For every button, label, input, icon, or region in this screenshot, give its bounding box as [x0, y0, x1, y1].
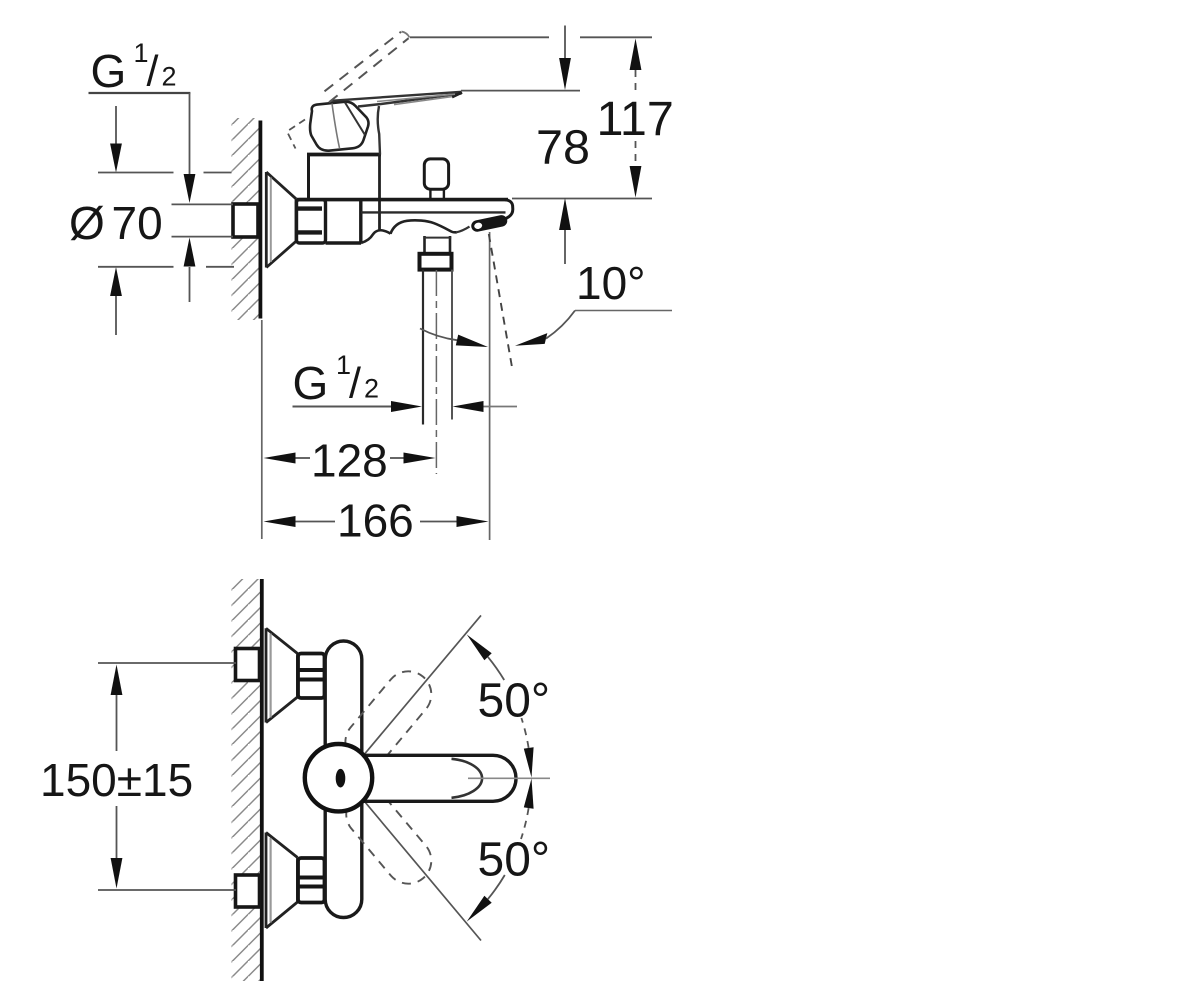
hub center dot	[336, 769, 346, 788]
lever phantom raised position (dashed)	[287, 32, 410, 149]
svg-text:150±15: 150±15	[40, 754, 193, 806]
dimension 150±15	[40, 663, 236, 890]
50 deg ray, lower	[357, 793, 481, 941]
G 1/2 leader underline	[89, 92, 191, 94]
escutcheon cone (side view)	[266, 172, 296, 268]
extension line spout level	[512, 198, 652, 200]
svg-text:10°: 10°	[576, 257, 646, 309]
svg-text:Ø 70: Ø 70	[69, 197, 163, 249]
cartridge housing (side view)	[307, 155, 381, 232]
G 1/2 wall connection square (side view)	[233, 204, 258, 237]
extension lines escutcheon top/bottom (Ø70)	[98, 173, 234, 267]
lever axis extension line	[468, 777, 550, 779]
svg-text:/: /	[147, 48, 159, 96]
spout underside edge	[361, 211, 506, 213]
escutcheon cone, bottom (front view)	[266, 833, 298, 929]
wall connection square, bottom	[236, 875, 260, 907]
svg-text:117: 117	[597, 92, 674, 146]
10 deg label and leader	[575, 257, 672, 311]
phantom lever rotated down 50 deg (dashed)	[346, 791, 431, 883]
lever blade (side view, solid position)	[331, 92, 462, 155]
label G 1/2 (wall union, top left)	[91, 38, 177, 97]
faucet body capsule (front view)	[325, 641, 362, 918]
wall face line (side view)	[258, 121, 262, 319]
svg-text:78: 78	[536, 121, 590, 175]
svg-text:50°: 50°	[478, 675, 551, 728]
G 1/2 leader with arrows (hand shower)	[293, 401, 518, 412]
diverter knob (side view)	[424, 159, 448, 198]
union nut, bottom (front view)	[298, 858, 325, 903]
underside edge dome to outlet nozzle	[457, 227, 470, 233]
50 deg ray, upper	[357, 615, 481, 763]
outlet axis dashed (10 deg tilt)	[489, 234, 512, 366]
wall face extension line (lower)	[261, 320, 263, 539]
plumb extension line at outlet	[489, 232, 491, 540]
50 deg arc, upper with arrowheads	[467, 635, 534, 778]
dimension 117	[597, 39, 674, 198]
50 deg arc, lower with arrowheads	[467, 779, 534, 922]
dimension 166	[264, 495, 489, 547]
G 1/2 dimension vertical with arrows	[184, 93, 196, 302]
hose nut (side view)	[420, 254, 452, 270]
hand shower connection nipple	[423, 236, 451, 254]
wall hatching (front view)	[232, 579, 261, 981]
dimension 78	[536, 26, 590, 265]
hose outline lines	[423, 270, 452, 425]
svg-text:50°: 50°	[478, 834, 551, 887]
spout top edge (side view)	[297, 198, 509, 202]
wall hatching (side view)	[232, 118, 261, 320]
lever arm (front view)	[350, 755, 516, 801]
underside S-curve from body to shower dome	[361, 230, 391, 243]
extension line lever tip (78)	[461, 90, 580, 92]
svg-text:166: 166	[337, 495, 414, 547]
svg-text:G: G	[91, 45, 127, 97]
svg-text:2: 2	[364, 374, 379, 404]
label G 1/2 (hand shower, lower)	[293, 350, 380, 409]
svg-text:128: 128	[311, 435, 388, 487]
outlet nozzle (dark, tilted)	[474, 221, 502, 230]
spout right end	[505, 200, 513, 219]
hose centerline	[435, 270, 437, 474]
shower diverter dome (side view)	[391, 220, 457, 234]
svg-text:/: /	[349, 360, 361, 408]
dimension 128	[264, 435, 436, 487]
svg-text:G: G	[293, 357, 329, 409]
wall connection square, top	[236, 649, 260, 681]
extension line top (117, from raised lever tip)	[410, 36, 652, 38]
extension lines wall square top/bottom (G 1/2)	[172, 204, 234, 236]
union nut (side view)	[297, 200, 326, 243]
svg-text:2: 2	[162, 62, 177, 92]
union nut, top (front view)	[298, 654, 325, 699]
lever hub circle (front view)	[305, 744, 372, 811]
Ø70 dimension arrows	[110, 106, 122, 335]
wall face line (front view)	[260, 579, 264, 981]
lever handle dome (side view)	[310, 102, 368, 151]
valve body block (side view)	[326, 201, 362, 243]
escutcheon cone, top (front view)	[266, 628, 298, 722]
10 deg angle arc with arrowheads	[420, 311, 575, 348]
phantom lever rotated up 50 deg (dashed)	[345, 671, 431, 765]
